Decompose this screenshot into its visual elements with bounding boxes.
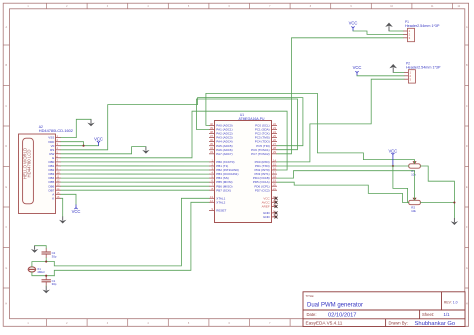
VCC power flag near LCD (94, 137, 103, 146)
connector P1 Header2.54mm 1*3P body (408, 28, 415, 41)
wire LCD DB6 to U1 PB6 (61, 185, 209, 187)
LCD pin 1 VSS (48, 134, 61, 140)
wire LCD E to U1 PD2 (61, 111, 287, 170)
U1 pin 23 PC1 (SDA) (255, 126, 277, 132)
svg-text:40: 40 (210, 122, 213, 126)
crystal X1 4MHz (28, 267, 45, 274)
ground symbol above crystal (31, 246, 38, 253)
wire U1 PD1 to R1 left terminal (277, 165, 409, 167)
svg-text:17: 17 (273, 171, 276, 175)
U1 pin 31 GND (263, 213, 277, 219)
svg-text:10k: 10k (411, 209, 416, 213)
LCD pin 11 DB4 (48, 175, 61, 181)
svg-text:PC7 (TOSC2): PC7 (TOSC2) (251, 152, 270, 156)
svg-text:18: 18 (273, 175, 276, 179)
svg-text:HD44780LCD-1602: HD44780LCD-1602 (39, 128, 73, 133)
P1 pin 1 (403, 29, 411, 33)
wire crystal loop to C1 (45, 275, 47, 277)
VCC power flag below LCD pin A (72, 205, 81, 214)
svg-text:C: C (466, 105, 468, 108)
U1 pin 18 PD4 (OC1B) (253, 175, 277, 181)
wire crystal loop top (32, 262, 54, 267)
wire P2 pin3 to U1 PD0 (277, 79, 404, 162)
wire LCD DB2 to U1 PB2 (61, 169, 209, 171)
LCD pin 3 V0 (51, 142, 61, 148)
U1 pin 12 XTAL2 (209, 199, 226, 205)
U1 pin 9 RESET (209, 207, 226, 213)
U1 pin 6 PB5 (MOSI) (209, 179, 232, 185)
U1 pin 28 PC6 (TOSC1) (251, 146, 277, 152)
U1 reference label (239, 113, 265, 121)
svg-text:C: C (5, 105, 7, 108)
P1 reference label (405, 20, 440, 28)
LCD pin 8 DB1 (48, 162, 61, 168)
wire U1 PA1 to U1 PC6 (197, 99, 298, 150)
svg-text:15: 15 (273, 163, 276, 167)
svg-text:EasyEDA V5.4.11: EasyEDA V5.4.11 (306, 321, 343, 326)
P1 pin 2 (403, 33, 411, 37)
LCD pin 7 DB0 (48, 158, 61, 164)
svg-text:30p: 30p (52, 282, 57, 286)
svg-text:20: 20 (273, 183, 276, 187)
wire crystal loop bottom (32, 272, 54, 276)
svg-text:VCC: VCC (353, 65, 362, 70)
wire R1 right terminal to GND rail (420, 166, 454, 203)
svg-text:Dual PWM generator: Dual PWM generator (307, 302, 363, 308)
svg-text:RESET: RESET (216, 209, 226, 213)
svg-text:D: D (5, 145, 7, 148)
title block REV text (444, 300, 458, 304)
svg-text:Header2.54mm 1*3P: Header2.54mm 1*3P (406, 66, 441, 70)
U1 pin 5 PB4 (SS) (209, 175, 229, 181)
VCC power flag at P2 (353, 65, 362, 76)
wire LCD DB3 to U1 PB3 (61, 173, 209, 175)
svg-text:34: 34 (210, 146, 213, 150)
title block Date text (307, 312, 357, 318)
title block (303, 292, 465, 327)
svg-text:D: D (466, 145, 468, 148)
svg-text:14: 14 (273, 158, 276, 162)
wire VCC to P1 pin2 (353, 31, 403, 34)
U1 pin 33 PA7 (ADC7) (209, 150, 233, 156)
wire LCD DB1 to U1 PB1 (61, 165, 209, 167)
U1 pin 14 PD0 (RXD) (255, 158, 277, 164)
svg-text:26: 26 (273, 138, 276, 142)
svg-text:21: 21 (273, 187, 276, 191)
U1 pin 34 PA6 (ADC6) (209, 146, 233, 152)
svg-text:23: 23 (273, 126, 276, 130)
wire LCD RW to GND (61, 147, 146, 154)
LCD A2 reference label (39, 125, 73, 133)
svg-text:Shubhankar Go: Shubhankar Go (415, 321, 456, 327)
wire LCD V0 to VCC (61, 145, 99, 147)
P1 pin 3 (403, 36, 411, 40)
svg-text:4MHz: 4MHz (37, 270, 45, 274)
svg-text:Drawn By:: Drawn By: (389, 321, 408, 326)
U1 pin 15 PD1 (TXD) (255, 163, 277, 169)
ground symbol at P2 (389, 64, 397, 72)
svg-text:REV:: REV: (444, 300, 452, 304)
U1 pin 2 PB1 (T1) (209, 163, 228, 169)
svg-text:16: 16 (273, 167, 276, 171)
svg-text:HD44780 LCD: HD44780 LCD (27, 150, 32, 178)
wire VCC to P2 pin2 (357, 75, 404, 77)
P2 pin 1 (404, 71, 412, 75)
wire LCD DB4 to U1 PB4 (61, 177, 209, 179)
LCD pin 12 DB5 (48, 179, 61, 185)
U1 pin 8 PB7 (SCK) (209, 187, 231, 193)
U1 pin 32 AREF (262, 203, 278, 209)
U1 pin 1 PB0 (XCKT0) (209, 158, 234, 164)
IC U1 ATMEGA16A-PU body (215, 121, 272, 223)
U1 pin 13 XTAL1 (209, 195, 226, 201)
svg-text:VCC: VCC (72, 209, 81, 214)
wire C2 to GND (35, 246, 47, 248)
P2 reference label (406, 62, 441, 70)
LCD pin 2 VDD (48, 138, 61, 144)
LCD pin 10 DB3 (48, 171, 61, 177)
LCD pin 5 RW (49, 150, 61, 156)
wire U1 XTAL2 to crystal bottom (54, 202, 209, 275)
svg-text:XTAL2: XTAL2 (216, 200, 225, 204)
svg-text:33: 33 (210, 150, 213, 154)
svg-text:VCC: VCC (349, 21, 358, 26)
svg-text:13: 13 (210, 195, 213, 199)
ground symbol below C1 (43, 286, 50, 293)
svg-text:39: 39 (210, 126, 213, 130)
wire LCD DB7 to U1 PB7 (61, 189, 209, 191)
ground symbol at pots (451, 218, 458, 225)
LCD pin 6 E (52, 154, 61, 160)
junction node VCC R1 (392, 165, 394, 167)
svg-text:27: 27 (273, 142, 276, 146)
potentiometer R1 10k (409, 161, 421, 176)
wire P1 pin3 to U1 PC7 (277, 38, 403, 154)
U1 pin 16 PD2 (INT0) (255, 167, 277, 173)
LCD pin 14 DB7 (48, 187, 61, 193)
svg-text:36: 36 (210, 138, 213, 142)
wire U1 PA0 to R1 wiper (206, 93, 415, 163)
svg-text:ATMEGA16A-PU: ATMEGA16A-PU (239, 117, 265, 121)
U1 pin 26 PC4 (TDO) (255, 138, 277, 144)
U1 pin 30 AVCC (262, 199, 278, 205)
junction node VDD-V0 (82, 145, 84, 147)
svg-text:25: 25 (273, 134, 276, 138)
svg-text:19: 19 (273, 179, 276, 183)
svg-text:12: 12 (210, 199, 213, 203)
svg-text:02/10/2017: 02/10/2017 (328, 312, 356, 318)
U1 pin 38 PA2 (ADC2) (209, 130, 233, 136)
LCD module A2 HD44780LCD-1602 (19, 134, 56, 214)
svg-text:10k: 10k (411, 173, 416, 177)
svg-text:H: H (466, 302, 468, 305)
title block TITLE text (306, 294, 364, 308)
svg-text:VCC: VCC (388, 148, 397, 153)
LCD pin 9 DB2 (48, 167, 61, 173)
wire U1 XTAL1 to crystal top (54, 198, 209, 266)
wire LCD K to GND (61, 198, 63, 216)
svg-text:30p: 30p (52, 254, 57, 258)
title block EasyEDA version text (306, 321, 343, 326)
svg-text:37: 37 (210, 134, 213, 138)
svg-text:G: G (5, 267, 7, 270)
wire P1 pin1 to GND (389, 30, 403, 32)
LCD pin 13 DB6 (48, 183, 61, 189)
U1 pin 22 PC0 (SCL) (255, 122, 277, 128)
P2 pin 2 (404, 74, 412, 78)
junction node R2 GND rail (453, 201, 455, 203)
potentiometer R2 10k (409, 198, 421, 213)
svg-text:TITLE:: TITLE: (306, 294, 315, 298)
LCD pin 4 RS (50, 146, 61, 152)
ground symbol at LCD VSS (87, 119, 94, 126)
LCD pin 15 A (52, 191, 61, 197)
svg-text:29: 29 (273, 150, 276, 154)
svg-text:24: 24 (273, 130, 276, 134)
wire U1 PD5 toward R2 left (277, 182, 409, 202)
U1 pin 39 PA1 (ADC1) (209, 126, 233, 132)
U1 pin 11 GND (263, 209, 277, 215)
junction node crystal top (45, 261, 47, 263)
ground symbol at LCD K (59, 217, 66, 224)
svg-text:35: 35 (210, 142, 213, 146)
svg-text:H: H (5, 302, 7, 305)
svg-text:22: 22 (273, 122, 276, 126)
svg-text:Header2.54mm 1*3P: Header2.54mm 1*3P (405, 24, 440, 28)
U1 pin 37 PA3 (ADC3) (209, 134, 233, 140)
U1 pin 21 PD7 (OC2) (255, 187, 277, 193)
VCC power flag near R1 (388, 148, 397, 166)
U1 pin 24 PC2 (TCK) (255, 130, 277, 136)
wire VCC junction to R2 left terminal (393, 166, 409, 203)
svg-text:1.0: 1.0 (453, 300, 458, 304)
svg-text:K: K (52, 196, 54, 200)
U1 pin 35 PA5 (ADC5) (209, 142, 233, 148)
svg-text:1/1: 1/1 (444, 312, 451, 317)
wire P2 pin1 to GND (393, 71, 404, 73)
svg-text:Sheet:: Sheet: (422, 312, 434, 317)
svg-text:28: 28 (273, 146, 276, 150)
wire LCD DB5 to U1 PB5 (61, 181, 209, 183)
U1 pin 4 PB3 (OC0/AIN1) (209, 171, 238, 177)
U1 pin 40 PA0 (ADC0) (209, 122, 233, 128)
junction node crystal bottom (45, 275, 47, 277)
U1 pin 29 PC7 (TOSC2) (251, 150, 277, 156)
ground symbol at LCD RW (142, 147, 149, 154)
svg-text:38: 38 (210, 130, 213, 134)
capacitor C2 30p (42, 248, 57, 258)
U1 pin 36 PA4 (ADC4) (209, 138, 233, 144)
svg-text:VCC: VCC (94, 137, 103, 142)
title block Sheet text (422, 312, 450, 317)
connector P2 Header2.54mm 1*3P body (408, 70, 415, 83)
U1 pin 7 PB6 (MISO) (209, 183, 232, 189)
U1 pin 27 PC5 (TDI) (256, 142, 277, 148)
U1 pin 25 PC3 (TMS) (255, 134, 277, 140)
svg-text:AREF: AREF (262, 205, 270, 209)
wire LCD VSS to GND (61, 119, 91, 137)
wire U1 PD4 to R2 wiper (277, 171, 415, 200)
wire LCD A to VCC (61, 194, 76, 204)
wire C2 bottom to crystal loop (45, 258, 47, 262)
wire R2 right terminal to GND rail (420, 203, 454, 219)
capacitor C1 30p (42, 276, 57, 286)
title block Drawn By text (389, 321, 456, 328)
U1 pin 17 PD3 (INT1) (255, 171, 277, 177)
LCD pin 16 K (52, 195, 61, 201)
VCC power flag at P1 (349, 21, 358, 31)
U1 pin 10 VCC (263, 195, 277, 201)
wire LCD RS to U1 PC5 (61, 98, 303, 150)
svg-text:GND: GND (263, 215, 271, 219)
svg-text:Date:: Date: (307, 312, 317, 317)
wire C1 to GND (45, 285, 47, 288)
svg-text:PA7 (ADC7): PA7 (ADC7) (216, 152, 232, 156)
U1 pin 19 PD5 (OC1A) (253, 179, 277, 185)
wire LCD DB0 to U1 PB0 (61, 161, 209, 163)
svg-text:PD7 (OC2): PD7 (OC2) (255, 188, 270, 192)
ground symbol at P1 (385, 23, 393, 31)
svg-text:PB7 (SCK): PB7 (SCK) (216, 188, 231, 192)
wire LCD VDD to V0 junction (61, 142, 84, 146)
svg-text:G: G (466, 267, 468, 270)
U1 pin 20 PD6 (ICP1) (254, 183, 277, 189)
U1 pin 3 PB2 (INT2/AIN0) (209, 167, 239, 173)
P2 pin 3 (404, 77, 412, 81)
